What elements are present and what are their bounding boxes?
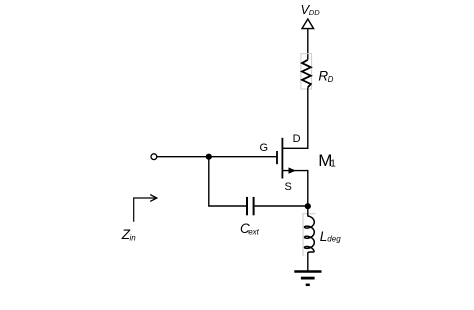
svg-text:D: D <box>328 75 334 84</box>
svg-text:D: D <box>293 133 301 145</box>
transistor M1 channel <box>281 138 283 179</box>
wire junction to inductor <box>307 206 309 217</box>
wire junction down to capacitor <box>209 157 246 206</box>
source arrow <box>289 167 296 173</box>
wire resistor to drain <box>282 88 308 149</box>
resistor RD <box>302 60 311 88</box>
Zin arrow <box>134 195 157 222</box>
label Ldeg <box>320 229 341 244</box>
ground <box>294 272 321 285</box>
input terminal circle <box>151 154 157 160</box>
capacitor right wire <box>255 205 308 207</box>
svg-text:deg: deg <box>327 235 341 244</box>
capacitor Cext plates <box>247 197 254 215</box>
label Cext <box>240 221 260 236</box>
selection bracket around Ldeg <box>303 214 316 256</box>
source lead wire <box>282 171 308 206</box>
label Zin <box>121 227 136 242</box>
junction node source <box>305 203 311 209</box>
wire inductor to ground <box>307 253 309 271</box>
label VDD <box>301 2 321 17</box>
svg-text:1: 1 <box>330 159 336 170</box>
selection box around RD <box>301 54 312 89</box>
svg-text:DD: DD <box>309 8 320 17</box>
svg-text:in: in <box>130 233 137 242</box>
svg-text:S: S <box>285 181 292 193</box>
label M1 <box>318 151 336 170</box>
gate wire <box>157 156 278 158</box>
inductor Ldeg coil <box>305 216 315 254</box>
label RD <box>318 68 333 83</box>
power symbol VDD triangle <box>302 19 314 29</box>
junction node gate <box>206 154 212 160</box>
transistor M1 gate bar <box>276 151 278 164</box>
wire VDD to resistor <box>307 29 309 60</box>
svg-text:ext: ext <box>248 227 259 236</box>
svg-text:G: G <box>260 142 269 154</box>
svg-text:L: L <box>320 229 328 244</box>
